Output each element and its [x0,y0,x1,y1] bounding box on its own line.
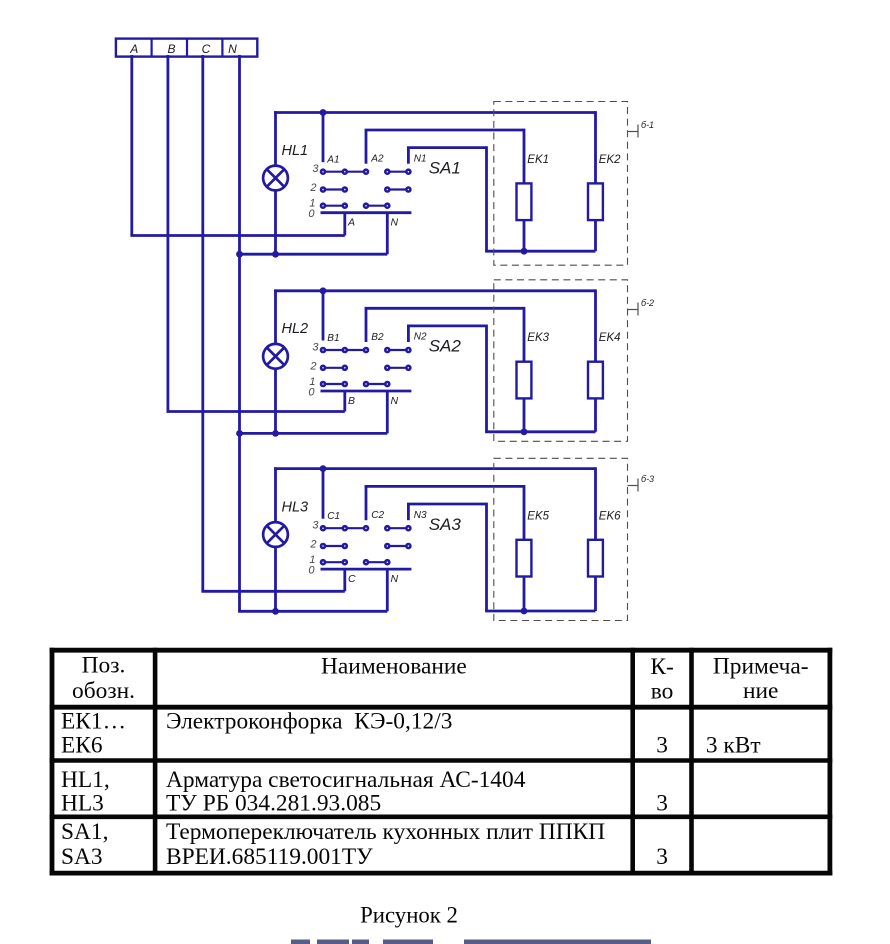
svg-text:B: B [167,42,175,56]
cropped next-line text fragments at bottom edge [291,940,651,944]
position labels 3 2 1 0 [308,520,319,577]
wire: EK2 bottom lead [594,220,597,251]
svg-text:HL3: HL3 [61,791,104,817]
dashed enclosure (hotplate unit 1) [494,102,628,266]
wire: A stub below bar [343,213,346,236]
wire: HL3 bottom lead to N [274,547,277,611]
wire: EK6 bottom lead [594,577,597,612]
svg-text:N: N [228,42,237,56]
svg-text:C2: C2 [371,510,384,521]
wire: N3 stub [407,504,410,520]
wire: run C2 to EK5 [365,485,524,488]
lamp HL3 [263,522,288,547]
wire: phase C feed to switch [201,590,344,593]
svg-text:Электроконфорка КЭ-0,12/3: Электроконфорка КЭ-0,12/3 [166,709,452,735]
node: junction HL3 lead on neutral feed [272,608,279,615]
wire: N3 run down [485,503,488,611]
wire: N1 stub [407,148,410,164]
wire: heater bottom run [485,250,595,253]
heating element EK6 [588,540,603,577]
wire: A1 stub down to contact [322,113,325,163]
wire: phase C column [201,55,204,591]
svg-text:C1: C1 [327,511,340,522]
dashed enclosure (hotplate unit 3) [494,458,628,620]
wire: EK2 top lead [594,111,597,183]
wire: EK1 bottom lead [523,220,526,251]
svg-text:A2: A2 [370,154,384,165]
wire: N stub below bar [386,391,389,433]
wire: neutral N column [238,55,241,611]
wire: run B2 to EK3 [365,307,524,310]
wire: top run lamp to EK4 [274,289,595,292]
table row 1: EK1..EK6 hotplate [61,709,761,759]
connector mark б-2 [628,298,655,316]
svg-text:B1: B1 [327,333,339,344]
wire: EK3 top lead [523,307,526,362]
svg-text:2: 2 [309,182,316,194]
svg-text:C: C [202,42,211,56]
switch SA1 common bar (position 0) [321,211,412,214]
wire: top run lamp to EK6 [274,467,595,470]
svg-text:SA1: SA1 [429,158,461,177]
wire: N stub below bar [386,569,389,611]
svg-text:HL2: HL2 [282,321,309,337]
parts list table [50,648,833,876]
svg-text:Термопереключатель кухонных пл: Термопереключатель кухонных плит ППКП [166,819,605,845]
wire: run N3 right [407,503,487,506]
svg-text:К-: К- [650,654,673,680]
svg-text:ЕК6: ЕК6 [61,732,103,758]
svg-text:б-1: б-1 [641,120,654,130]
wire: EK4 top lead [594,289,597,361]
wire: C2 stub [365,486,368,520]
svg-text:0: 0 [308,565,315,577]
svg-text:ЕК1…: ЕК1… [61,709,126,735]
svg-text:EK2: EK2 [599,154,621,166]
node: junction on N column [236,430,243,437]
wire: EK1 top lead [523,129,526,184]
svg-text:N: N [391,395,399,407]
wire: EK5 top lead [523,485,526,540]
svg-text:SA3: SA3 [61,844,103,870]
svg-text:EK4: EK4 [599,332,621,344]
svg-text:EK1: EK1 [527,154,549,166]
svg-text:3: 3 [312,520,319,532]
svg-text:EK6: EK6 [599,510,621,522]
wire: B2 stub [365,308,368,342]
table row 3: SA1,SA3 thermo switch [61,819,668,870]
wire: B1 stub down to contact [322,291,325,341]
position labels 3 2 1 0 [308,163,319,220]
wire: HL1 bottom lead to N [274,190,277,254]
wire: run N1 right [407,146,487,149]
node: EK5 bottom junction [521,608,528,615]
svg-text:SA3: SA3 [429,515,462,534]
svg-text:SA1,: SA1, [61,819,108,845]
wire: HL1 top lead [274,111,277,166]
svg-text:0: 0 [308,208,315,220]
switch SA1 contact rows [320,168,412,209]
svg-text:N3: N3 [414,510,427,521]
heating element EK2 [588,183,603,220]
node: EK1 bottom junction [521,248,528,255]
wire: run N2 right [407,324,487,327]
wire: N2 stub [407,326,410,342]
wire: N2 run down [485,325,488,432]
svg-text:0: 0 [308,387,315,399]
svg-text:HL1,: HL1, [61,767,110,793]
node: junction HL1 lead on neutral feed [272,251,279,258]
svg-text:3: 3 [312,342,319,354]
svg-text:Рисунок 2: Рисунок 2 [360,902,458,927]
svg-text:N2: N2 [414,332,427,343]
wire: C stub below bar [343,569,346,591]
terminal block XT (A B C N) [116,39,257,57]
svg-text:Арматура светосигнальная АС-14: Арматура светосигнальная АС-1404 [166,767,526,793]
heating element EK5 [517,540,532,577]
wire: HL2 bottom lead to N [274,369,277,434]
wire: N stub below bar [386,213,389,255]
table header [72,652,808,704]
svg-text:3: 3 [656,844,668,870]
node: junction C1 stub on top run [320,465,327,472]
lamp HL2 [263,344,288,369]
svg-text:3: 3 [312,163,319,175]
svg-text:A1: A1 [326,155,339,166]
svg-text:3 кВт: 3 кВт [706,732,761,758]
svg-text:б-3: б-3 [641,474,654,484]
svg-text:3: 3 [656,732,668,758]
wire: A2 stub [365,130,368,164]
heating element EK1 [517,183,532,220]
wire: neutral feed to switch [240,432,388,435]
svg-text:N1: N1 [414,153,427,164]
position labels 3 2 1 0 [308,342,319,399]
connector mark б-1 [628,120,655,138]
node: junction B1 stub on top run [320,287,327,294]
svg-text:2: 2 [309,539,316,551]
svg-text:A: A [347,217,355,229]
wire: heater bottom run [485,430,595,433]
wire: neutral feed to switch [238,610,387,613]
wire: EK5 bottom lead [523,577,526,612]
svg-text:HL3: HL3 [282,499,309,515]
svg-text:обозн.: обозн. [72,678,135,704]
wire: C1 stub down to contact [322,469,325,519]
wire: phase B feed to switch [167,410,345,413]
svg-text:во: во [651,679,674,705]
svg-text:A: A [129,42,138,56]
heating element EK4 [588,362,603,399]
dashed enclosure (hotplate unit 2) [494,280,628,442]
switch SA2 contact rows [320,347,412,388]
node: EK3 bottom junction [521,428,528,435]
svg-text:Наименование: Наименование [321,653,467,679]
wire: EK6 top lead [594,467,597,540]
wire: neutral feed to switch [240,253,388,256]
svg-text:HL1: HL1 [282,143,309,159]
wire: run A2 to EK1 [365,129,524,132]
table row 2: HL1,HL3 signal lamp fitting [61,767,668,817]
node: junction HL2 lead on neutral feed [272,430,279,437]
switch SA2 common bar (position 0) [321,390,412,393]
heating element EK3 [517,362,532,399]
svg-text:б-2: б-2 [641,298,654,308]
node: junction A1 stub on top run [320,109,327,116]
wire: EK4 bottom lead [594,398,597,431]
wire: top run lamp to EK2 [274,111,595,114]
svg-text:Поз.: Поз. [82,652,126,678]
svg-text:ние: ние [743,678,778,704]
switch SA3 contact rows [320,525,412,566]
svg-text:EK3: EK3 [527,332,549,344]
wire: EK3 bottom lead [523,398,526,431]
switch SA3 common bar (position 0) [321,568,412,571]
wire: phase A column [130,55,133,236]
wire: phase B column [166,55,169,412]
wire: B stub below bar [343,391,346,412]
wire: HL2 top lead [274,289,277,344]
svg-text:B2: B2 [371,332,384,343]
wire: phase A feed to switch [130,234,344,237]
svg-text:B: B [348,395,355,407]
wire: heater bottom run [485,610,595,613]
svg-text:C: C [348,573,356,585]
svg-text:N: N [391,573,399,585]
svg-text:ВРЕИ.685119.001ТУ: ВРЕИ.685119.001ТУ [166,844,373,870]
connector mark б-3 [628,474,655,492]
wire: N1 run down [485,146,488,251]
svg-text:EK5: EK5 [527,510,549,522]
svg-text:ТУ РБ 034.281.93.085: ТУ РБ 034.281.93.085 [166,791,381,817]
svg-text:SA2: SA2 [429,337,462,356]
lamp HL1 [263,166,288,191]
svg-text:2: 2 [309,360,316,372]
svg-text:N: N [391,217,399,229]
node: junction on N column [236,251,243,258]
svg-text:3: 3 [656,791,668,817]
wire: HL3 top lead [274,467,277,522]
svg-text:Примеча-: Примеча- [713,653,809,679]
